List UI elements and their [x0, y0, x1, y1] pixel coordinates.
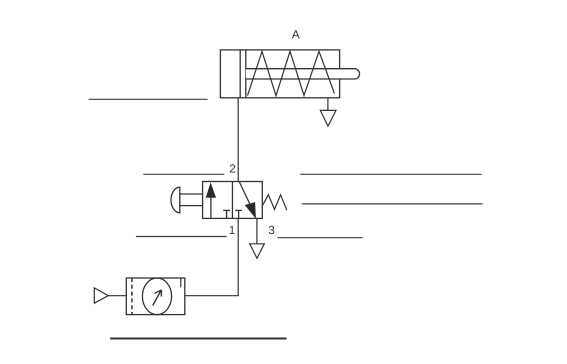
- answer blank line (right upper): [300, 173, 481, 175]
- cylinder A return spring: [248, 51, 335, 95]
- valve V1 right position blocked port T: [235, 210, 242, 218]
- port label 2: [229, 162, 236, 176]
- valve V1 left position blocked port T: [223, 210, 230, 218]
- service unit gauge dial: [142, 278, 171, 315]
- svg-text:A: A: [292, 28, 300, 42]
- answer blank line (right lower): [302, 203, 483, 205]
- cylinder A exhaust triangle: [320, 110, 336, 126]
- svg-text:2: 2: [229, 162, 236, 176]
- service unit body: [126, 278, 185, 315]
- cylinder A piston rod: [246, 69, 360, 79]
- answer blank line (right of port 3): [277, 237, 362, 239]
- answer blank line (service unit, bottom): [110, 338, 286, 340]
- wire cylinder port to valve port 2: [237, 98, 239, 182]
- wire supply to service unit: [108, 295, 126, 297]
- valve V1 body (3/2-way valve): [203, 182, 263, 219]
- valve V1 exhaust line port 3: [256, 218, 258, 243]
- valve V1 exhaust triangle: [250, 244, 265, 258]
- answer blank line (cylinder): [89, 98, 208, 100]
- valve V1 right position flow arrow (2 to 3): [239, 182, 255, 218]
- svg-text:3: 3: [268, 223, 275, 237]
- port label 1: [229, 223, 236, 237]
- answer blank line (valve upper left): [143, 173, 224, 175]
- service unit gauge needle arrow: [153, 290, 162, 306]
- service unit filter dashed line: [131, 278, 133, 315]
- port label 3: [268, 223, 275, 237]
- cylinder A body: [220, 50, 339, 98]
- valve V1 return spring: [262, 195, 287, 210]
- svg-text:1: 1: [229, 223, 236, 237]
- cylinder A exhaust line: [327, 98, 329, 111]
- valve V1 push-button actuator: [171, 187, 203, 213]
- answer blank line (valve lower left): [136, 236, 227, 238]
- cylinder A piston: [240, 50, 246, 98]
- wire valve port 1 to supply: [185, 218, 238, 295]
- valve V1 left position flow arrow (1 to 2): [206, 183, 215, 217]
- label A (cylinder designator): [292, 28, 300, 42]
- service unit port tick: [180, 278, 182, 287]
- compressed air supply triangle: [94, 288, 108, 303]
